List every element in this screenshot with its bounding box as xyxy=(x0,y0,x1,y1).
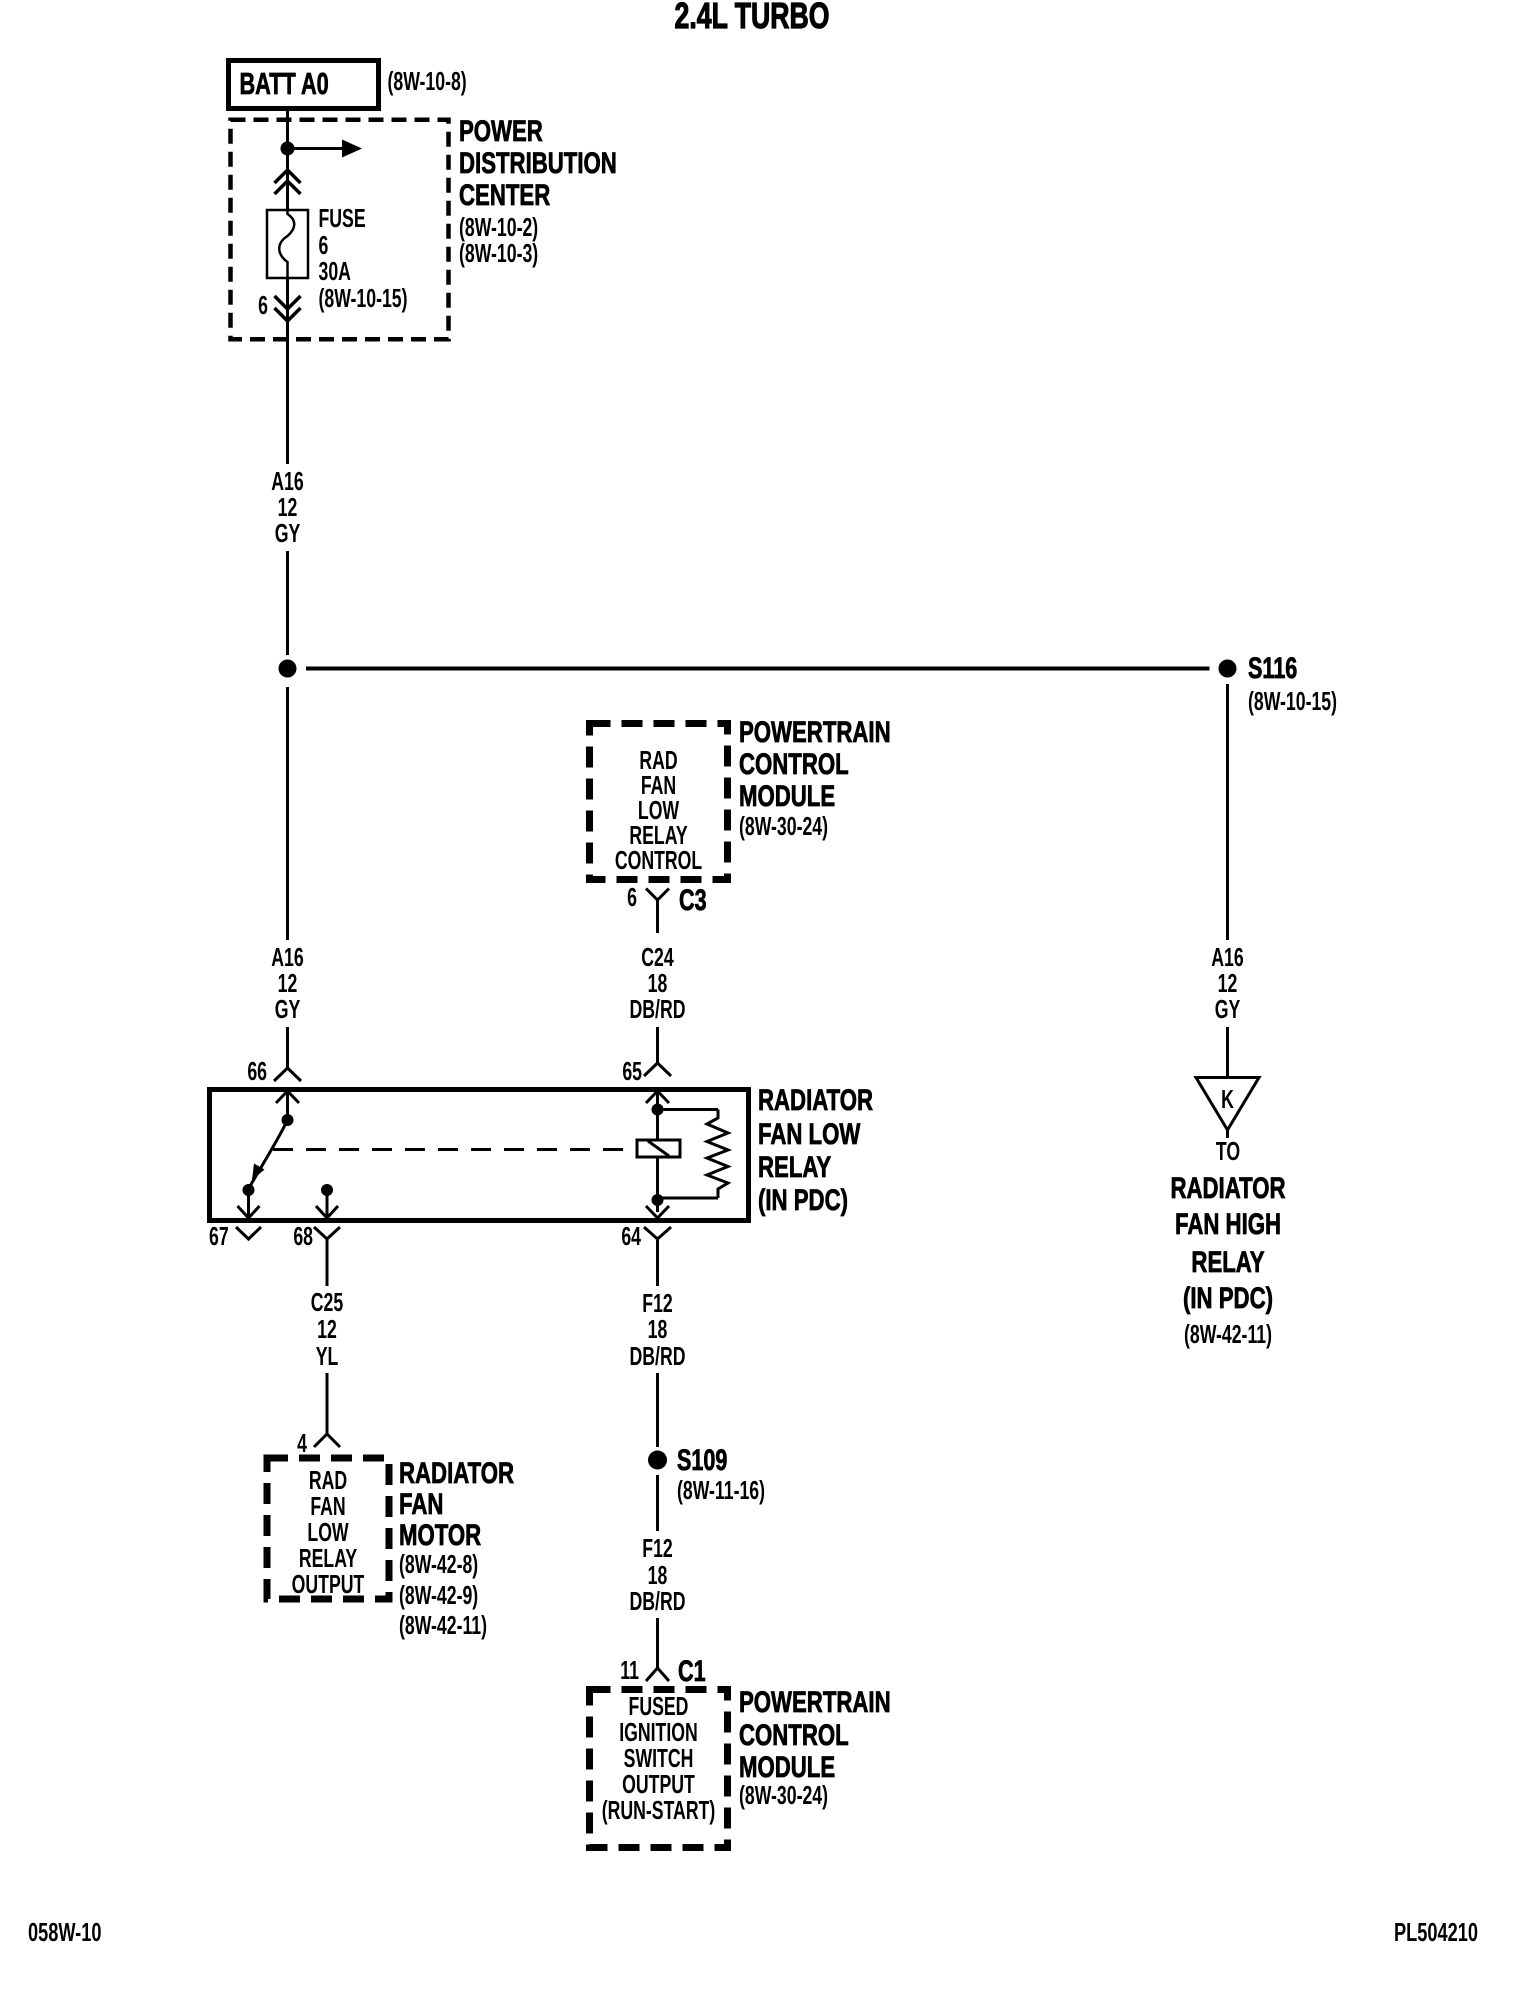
svg-text:PL504210: PL504210 xyxy=(1394,1918,1478,1947)
svg-text:18: 18 xyxy=(648,1315,668,1344)
svg-text:FUSED: FUSED xyxy=(629,1692,689,1721)
svg-text:(8W-42-9): (8W-42-9) xyxy=(399,1581,478,1610)
svg-text:YL: YL xyxy=(316,1342,339,1371)
svg-text:OUTPUT: OUTPUT xyxy=(622,1770,695,1799)
svg-text:FUSE: FUSE xyxy=(319,204,366,233)
svg-text:(8W-10-15): (8W-10-15) xyxy=(1248,687,1337,716)
svg-text:GY: GY xyxy=(1215,995,1241,1024)
svg-text:058W-10: 058W-10 xyxy=(28,1918,101,1947)
svg-text:POWERTRAIN: POWERTRAIN xyxy=(739,1685,891,1719)
svg-text:(8W-10-8): (8W-10-8) xyxy=(388,67,467,96)
svg-text:6: 6 xyxy=(319,231,329,260)
svg-text:LOW: LOW xyxy=(307,1518,348,1547)
svg-text:64: 64 xyxy=(621,1222,641,1251)
svg-text:SWITCH: SWITCH xyxy=(624,1744,694,1773)
svg-text:30A: 30A xyxy=(319,257,351,286)
svg-text:C1: C1 xyxy=(678,1653,706,1687)
svg-text:68: 68 xyxy=(293,1222,313,1251)
svg-text:(8W-10-15): (8W-10-15) xyxy=(319,284,408,313)
svg-text:(RUN-START): (RUN-START) xyxy=(602,1796,716,1825)
svg-text:RELAY: RELAY xyxy=(299,1544,357,1573)
svg-text:IGNITION: IGNITION xyxy=(619,1718,698,1747)
svg-text:DB/RD: DB/RD xyxy=(630,1587,686,1616)
svg-text:12: 12 xyxy=(317,1315,337,1344)
svg-text:4: 4 xyxy=(297,1429,307,1458)
svg-text:(8W-42-11): (8W-42-11) xyxy=(1184,1320,1272,1349)
svg-text:DISTRIBUTION: DISTRIBUTION xyxy=(459,146,617,180)
svg-text:DB/RD: DB/RD xyxy=(630,1342,686,1371)
svg-text:CONTROL: CONTROL xyxy=(739,1718,849,1752)
svg-text:RELAY: RELAY xyxy=(1191,1245,1265,1279)
svg-text:(8W-42-11): (8W-42-11) xyxy=(399,1611,487,1640)
svg-text:FAN: FAN xyxy=(399,1487,443,1521)
svg-text:(IN PDC): (IN PDC) xyxy=(758,1183,848,1217)
svg-text:(IN PDC): (IN PDC) xyxy=(1183,1281,1273,1315)
svg-text:66: 66 xyxy=(247,1057,267,1086)
svg-text:(8W-42-8): (8W-42-8) xyxy=(399,1550,478,1579)
svg-text:(8W-30-24): (8W-30-24) xyxy=(739,1781,828,1810)
svg-text:(8W-10-3): (8W-10-3) xyxy=(459,239,538,268)
svg-text:FAN HIGH: FAN HIGH xyxy=(1175,1207,1281,1241)
svg-text:A16: A16 xyxy=(1211,943,1243,972)
svg-text:CONTROL: CONTROL xyxy=(739,747,849,781)
svg-text:C25: C25 xyxy=(311,1288,343,1317)
svg-text:S116: S116 xyxy=(1248,650,1297,684)
svg-text:C3: C3 xyxy=(679,882,707,916)
svg-text:RADIATOR: RADIATOR xyxy=(758,1083,873,1117)
svg-text:65: 65 xyxy=(622,1057,642,1086)
svg-text:GY: GY xyxy=(275,995,301,1024)
svg-text:F12: F12 xyxy=(642,1289,672,1318)
svg-text:(8W-10-2): (8W-10-2) xyxy=(459,213,538,242)
svg-text:C24: C24 xyxy=(641,943,674,972)
svg-text:MOTOR: MOTOR xyxy=(399,1518,481,1552)
svg-text:18: 18 xyxy=(648,1561,668,1590)
svg-text:12: 12 xyxy=(1218,969,1238,998)
svg-text:67: 67 xyxy=(209,1222,229,1251)
svg-text:A16: A16 xyxy=(271,943,303,972)
svg-text:DB/RD: DB/RD xyxy=(630,995,686,1024)
svg-text:FAN: FAN xyxy=(310,1492,345,1521)
svg-text:6: 6 xyxy=(258,291,268,320)
svg-text:POWER: POWER xyxy=(459,114,543,148)
svg-text:A16: A16 xyxy=(271,467,303,496)
svg-text:18: 18 xyxy=(648,969,668,998)
svg-text:12: 12 xyxy=(278,969,298,998)
svg-text:RELAY: RELAY xyxy=(758,1150,832,1184)
svg-text:FAN LOW: FAN LOW xyxy=(758,1117,860,1151)
svg-text:12: 12 xyxy=(278,493,298,522)
svg-text:F12: F12 xyxy=(642,1534,672,1563)
svg-text:11: 11 xyxy=(620,1656,639,1685)
svg-text:2.4L TURBO: 2.4L TURBO xyxy=(675,0,830,36)
svg-text:RADIATOR: RADIATOR xyxy=(1170,1171,1285,1205)
svg-text:6: 6 xyxy=(627,883,637,912)
svg-text:MODULE: MODULE xyxy=(739,779,835,813)
svg-text:POWERTRAIN: POWERTRAIN xyxy=(739,715,891,749)
svg-text:TO: TO xyxy=(1216,1137,1240,1166)
svg-text:GY: GY xyxy=(275,519,301,548)
svg-text:BATT A0: BATT A0 xyxy=(240,66,329,101)
svg-text:MODULE: MODULE xyxy=(739,1750,835,1784)
svg-text:OUTPUT: OUTPUT xyxy=(292,1570,365,1599)
svg-text:RADIATOR: RADIATOR xyxy=(399,1456,514,1490)
svg-text:(8W-11-16): (8W-11-16) xyxy=(677,1476,765,1505)
svg-text:RAD: RAD xyxy=(309,1466,347,1495)
svg-text:CENTER: CENTER xyxy=(459,178,550,212)
svg-text:(8W-30-24): (8W-30-24) xyxy=(739,812,828,841)
svg-text:K: K xyxy=(1221,1085,1234,1114)
svg-text:CONTROL: CONTROL xyxy=(615,846,702,875)
svg-text:S109: S109 xyxy=(677,1442,727,1476)
